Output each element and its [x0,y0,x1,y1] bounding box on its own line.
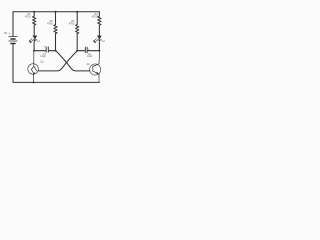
LED L2 arrows [94,39,98,43]
svg-text:+: + [8,32,10,36]
svg-text:L2: L2 [102,41,105,43]
svg-text:47kΩ: 47kΩ [69,23,75,26]
wire LED1 to collector junction [33,40,36,51]
svg-text:10µF: 10µF [87,55,93,58]
wire LED2 to collector junction [98,40,100,51]
wire R3 drop from rail [76,12,78,25]
resistor R2 47k [54,25,57,34]
node dot rail R3 [76,11,78,13]
wire R2 drop from rail [55,12,57,25]
node Q2 collector / C2 right [98,50,100,52]
resistor R1 470 [33,16,36,25]
wire C2 right plate to LED2 cathode junction [87,50,99,52]
node dot rail R2 [55,11,57,13]
svg-text:Q1: Q1 [40,61,44,64]
wire cross diagonal to Q1 base [38,51,77,71]
svg-text:L1: L1 [37,41,40,43]
node R2/C1/Q2 base [55,50,57,52]
wire R4 to LED2 [98,25,100,36]
svg-text:470Ω: 470Ω [92,16,98,19]
transistor Q2 [90,51,101,83]
wire left border bottom (battery -) [12,44,14,83]
svg-text:47kΩ: 47kΩ [47,23,53,26]
wire junction to C1 left plate [34,50,46,52]
capacitor C2 10uF [85,47,87,53]
wire right border R4 drop [98,12,100,16]
LED L2 [97,36,101,40]
node Q1 emitter to ground [33,81,35,83]
wire R3 node to C2 left plate [77,50,85,52]
wire R3 to node [76,34,78,51]
svg-text:470Ω: 470Ω [25,16,31,19]
node Q1 collector / C1 left [33,50,35,52]
wire R1 to LED1 [33,25,35,36]
resistor R3 47k [76,25,79,34]
LED L1 arrows [29,39,33,43]
svg-text:Q2: Q2 [86,63,90,66]
wire C1 right plate to R2 node [49,50,56,52]
battery BAT1 9V [9,37,17,44]
transistor Q1 [28,51,39,83]
svg-text:9V: 9V [4,31,8,35]
wire bottom rail ground [13,81,99,83]
node R3/C2/Q1 base [76,50,78,52]
wire cross diagonal to Q2 base [56,51,90,71]
capacitor C1 10uF [46,47,48,52]
LED L1 [33,36,37,40]
wire R1 drop from rail [33,12,35,16]
wire top rail V+ [13,11,99,13]
svg-text:+: + [88,47,90,51]
resistor R4 470 [98,16,101,25]
node dot rail R1 [33,11,35,13]
svg-text:+: + [44,44,46,48]
svg-text:10µF: 10µF [40,55,46,58]
wire left border top (battery +) [12,12,14,37]
wire R2 to node [55,34,57,51]
